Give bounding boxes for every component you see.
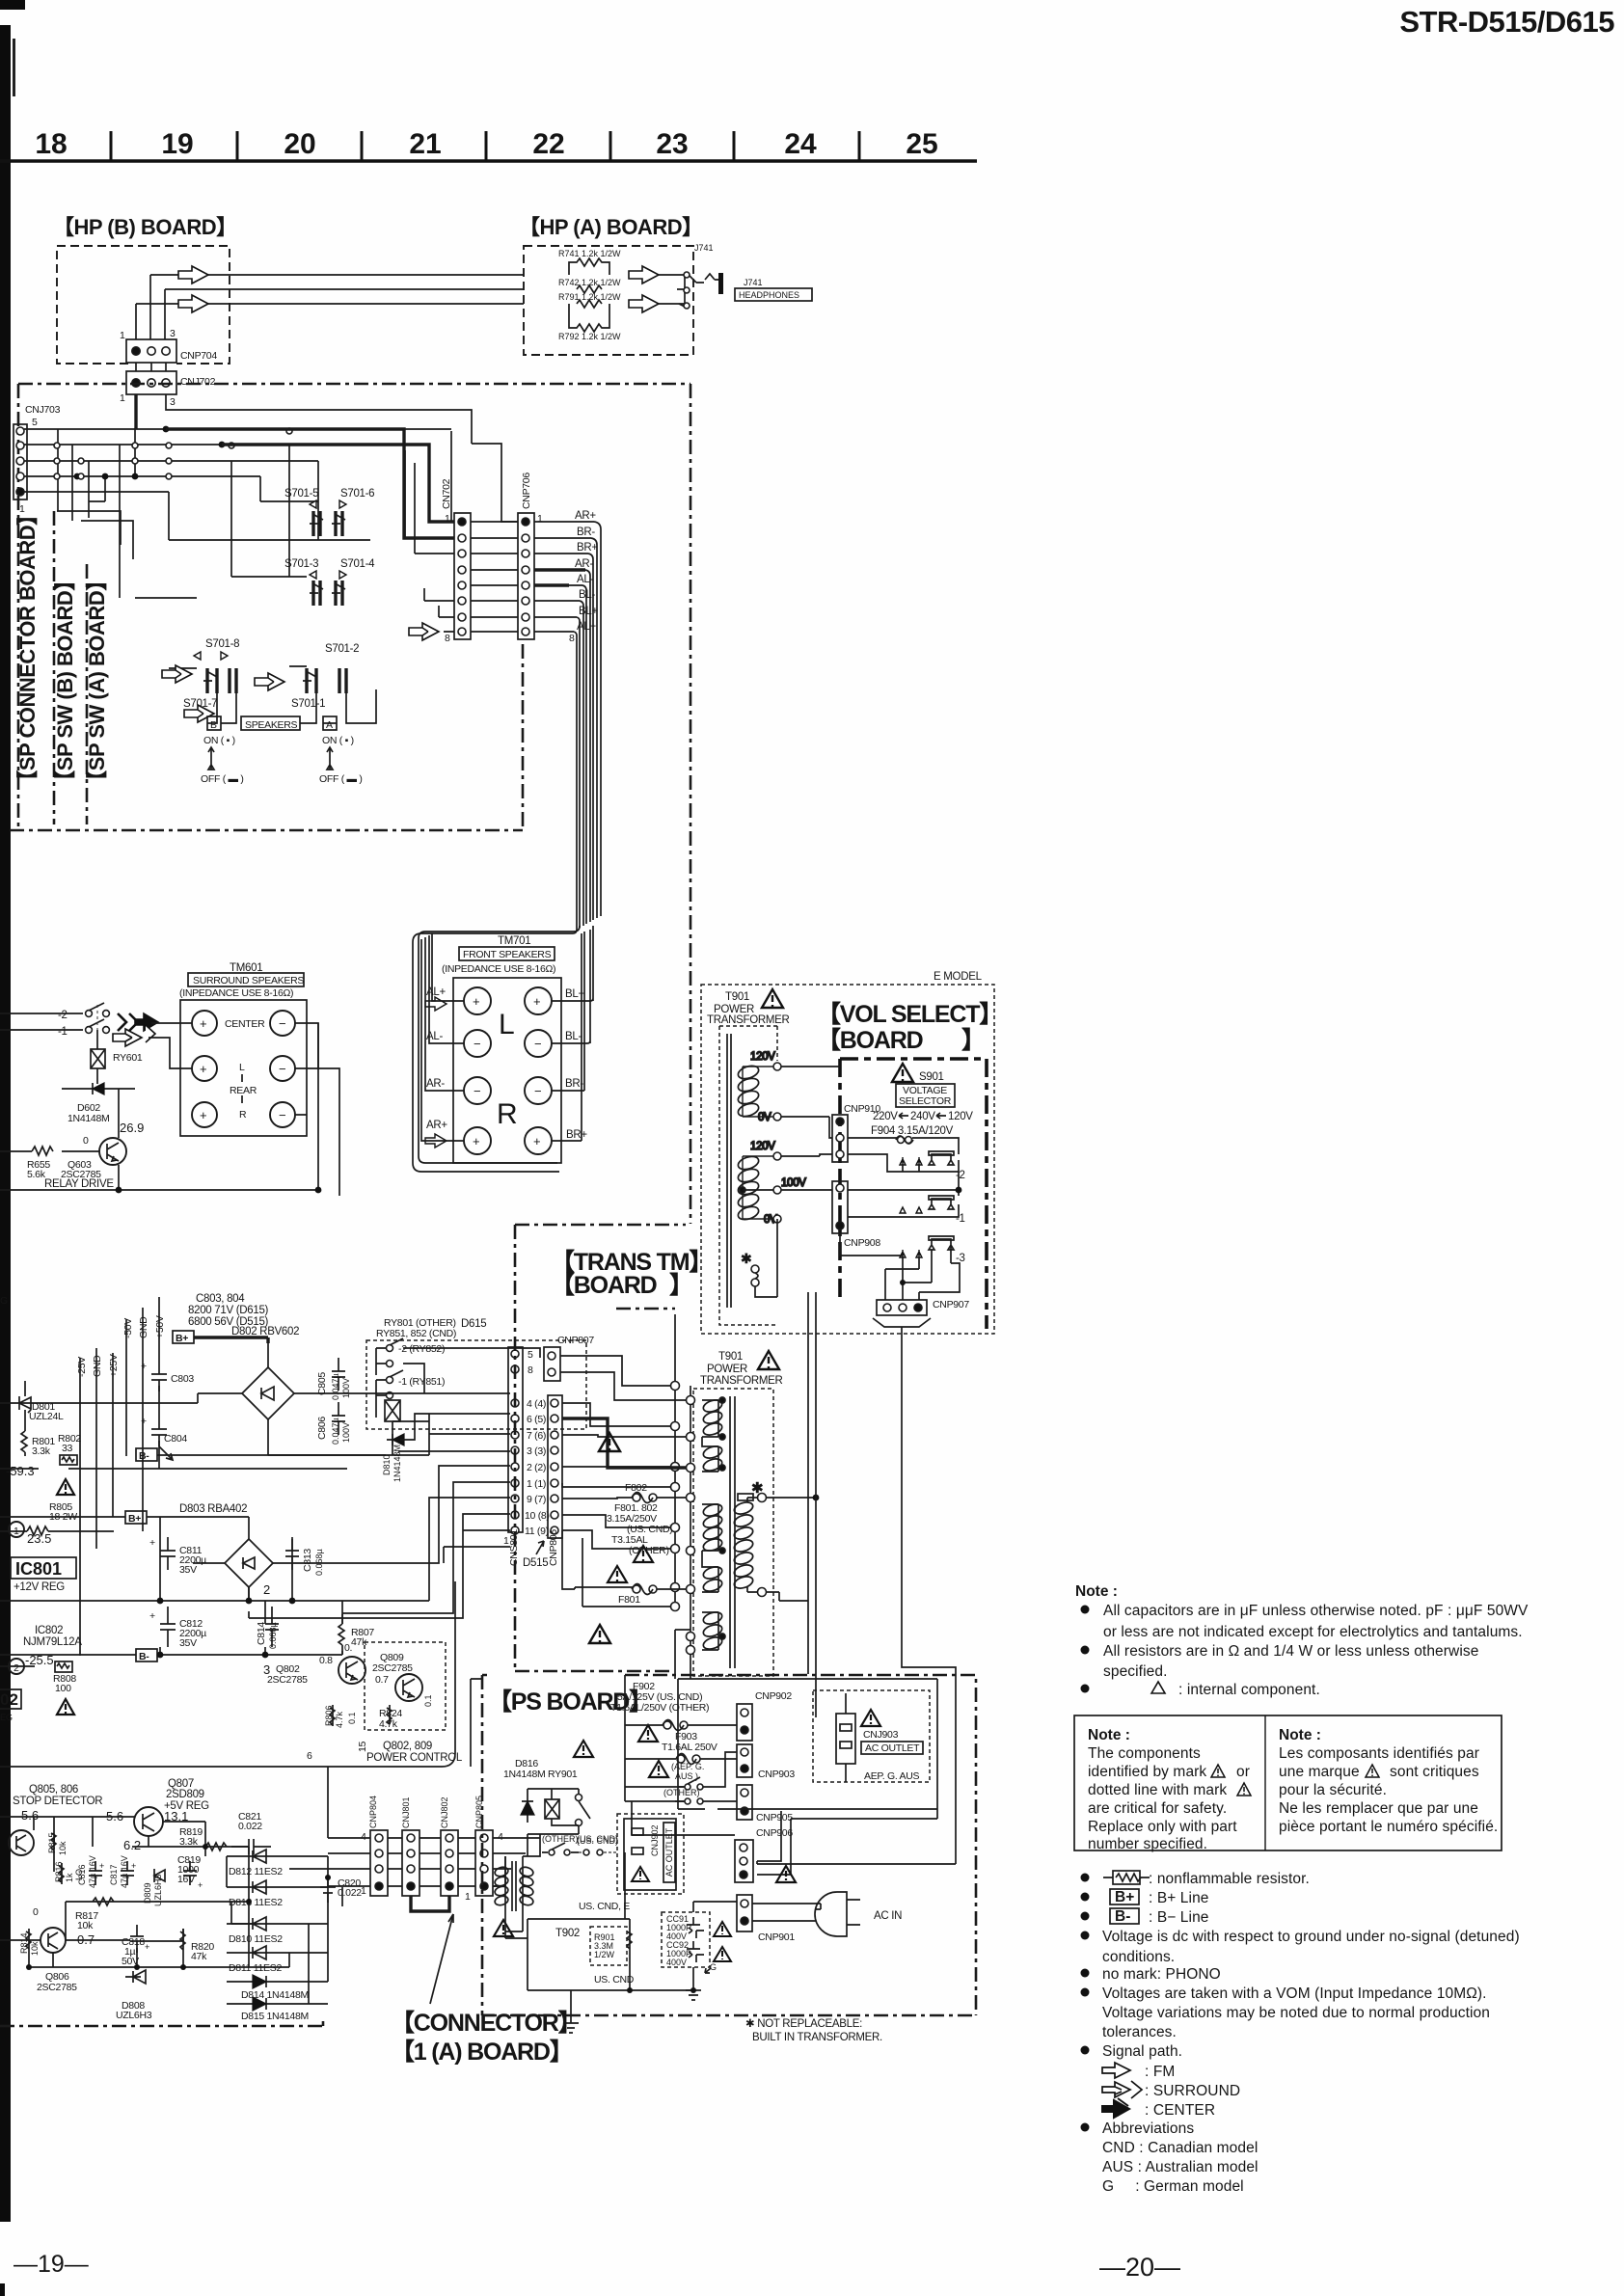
svg-text:S701-6: S701-6 (340, 488, 374, 500)
capacitor C819 1000 16V (177, 1854, 203, 1890)
svg-text:pour la sécurité.: pour la sécurité. (1279, 1782, 1387, 1798)
capacitor C811 2200u 35V (149, 1537, 206, 1576)
surround arrow to pin8 (409, 623, 439, 640)
svg-text:35V: 35V (179, 1637, 197, 1649)
relay RY901 switch (576, 1789, 591, 1834)
terminal TM601 L - (270, 1056, 295, 1081)
Q809 dotted box (365, 1642, 446, 1730)
wire S701-1 bottom rail (207, 689, 376, 723)
svg-text:-1 (RY851): -1 (RY851) (398, 1376, 445, 1388)
resistor R806 4.7k (324, 1705, 357, 1728)
svg-text:(AEP. G.: (AEP. G. (671, 1762, 704, 1771)
surround arrow mid (255, 673, 284, 690)
svg-text:+: + (473, 994, 480, 1009)
T901 secondary coil 2 (737, 1141, 807, 1226)
connector CNP704 (120, 328, 217, 363)
svg-text:24: 24 (784, 128, 817, 160)
zener D808 UZL6H3 (116, 1970, 152, 2021)
svg-text:47µ 16V: 47µ 16V (120, 1855, 129, 1888)
svg-text:0.: 0. (344, 1642, 352, 1654)
svg-text:S701-4: S701-4 (340, 558, 375, 570)
svg-text:CNP806: CNP806 (548, 1529, 559, 1566)
diode D810 1N4148M (382, 1434, 404, 1482)
svg-text:CENTER: CENTER (225, 1018, 265, 1030)
svg-text:0.068µ: 0.068µ (314, 1549, 324, 1576)
svg-text:Voltages are taken with a VOM: Voltages are taken with a VOM (Input Imp… (1102, 1985, 1487, 2002)
svg-text:R: R (239, 1109, 247, 1121)
warning triangles CC (714, 1922, 731, 1936)
svg-text:CNP706: CNP706 (521, 473, 532, 509)
svg-text:CNJ902: CNJ902 (650, 1824, 660, 1856)
svg-text:+: + (200, 1108, 207, 1122)
svg-text:RY851, 852 (CND): RY851, 852 (CND) (376, 1328, 456, 1339)
AC OUTLET rotated box (663, 1823, 675, 1882)
svg-text:✱ NOT REPLACEABLE:: ✱ NOT REPLACEABLE: (745, 2018, 862, 2030)
svg-text:CNP906: CNP906 (756, 1827, 793, 1839)
svg-text:2: 2 (14, 1662, 19, 1674)
wire HP(B) to HP(A) row2 (165, 288, 524, 290)
svg-text:CNJ703: CNJ703 (25, 404, 61, 416)
svg-text:+: + (131, 1861, 136, 1871)
svg-text:(US. CND): (US. CND) (577, 1836, 618, 1846)
svg-text:CNJ903: CNJ903 (863, 1729, 899, 1741)
T901 primary coil (733, 1494, 767, 1597)
svg-text:−: − (474, 1084, 481, 1098)
svg-text:+: + (533, 1134, 541, 1148)
TM601 output wires right side (295, 1023, 339, 1196)
svg-text:5: 5 (32, 417, 38, 428)
CC91 CC92 dotted box (662, 1912, 710, 1967)
svg-text:【SP SW (A) BOARD】: 【SP SW (A) BOARD】 (85, 570, 109, 791)
S901 warning triangle (892, 1064, 913, 1082)
svg-text:1: 1 (120, 330, 125, 341)
svg-text:CNJ801: CNJ801 (401, 1796, 411, 1828)
svg-text:OFF ( ▬ ): OFF ( ▬ ) (319, 773, 363, 785)
svg-text:+5V REG: +5V REG (164, 1800, 209, 1812)
bridge rectifier D802 (198, 1343, 338, 1455)
svg-text:specified.: specified. (1103, 1663, 1167, 1680)
svg-text:18: 18 (35, 128, 67, 160)
svg-text:0.7: 0.7 (375, 1674, 389, 1686)
wire verticals in mesh (58, 428, 318, 598)
svg-text:【HP (B) BOARD】: 【HP (B) BOARD】 (53, 215, 237, 239)
svg-text:1: 1 (14, 1526, 19, 1537)
svg-text:E MODEL: E MODEL (934, 971, 983, 983)
svg-text:0.1: 0.1 (423, 1694, 433, 1707)
wires into CN702 from mesh (405, 431, 454, 632)
svg-text:B: B (210, 719, 217, 731)
svg-text:D803 RBA402: D803 RBA402 (179, 1503, 247, 1515)
note bullet internal component (1081, 1685, 1090, 1693)
svg-text:1 (1): 1 (1) (527, 1478, 546, 1490)
terminal TM601 center - (270, 1011, 295, 1036)
svg-text:BL+: BL+ (579, 606, 598, 617)
connector CN702 (441, 478, 471, 644)
svg-text:-1: -1 (58, 1026, 68, 1038)
svg-text:2SA1175: 2SA1175 (0, 1837, 2, 1872)
svg-text:(OTHER): (OTHER) (542, 1834, 579, 1844)
svg-text:4: 4 (361, 1831, 366, 1843)
warning triangle trans mid (599, 1433, 620, 1451)
bottom board dash-dot (0, 2021, 323, 2026)
svg-text:5.6: 5.6 (21, 1808, 39, 1823)
transistor Q603 (62, 1089, 126, 1190)
R901 dotted box (590, 1927, 627, 1965)
svg-text:2SC2785: 2SC2785 (372, 1662, 413, 1674)
warning triangle T901 (762, 989, 783, 1008)
svg-text:AC OUTLET: AC OUTLET (865, 1742, 920, 1754)
relay RY601 (91, 1030, 143, 1084)
transistor Q806 (33, 1906, 95, 1993)
svg-text:0: 0 (33, 1906, 39, 1918)
connector CNP907 (877, 1299, 969, 1315)
svg-text:+: + (473, 1134, 480, 1148)
svg-text:02: 02 (0, 1690, 18, 1709)
svg-text:dotted line with mark: dotted line with mark (1088, 1782, 1227, 1798)
jumper -1 (929, 1196, 965, 1225)
svg-text:B+: B+ (1115, 1889, 1134, 1905)
capacitor C806 0.047 100V (316, 1402, 351, 1445)
zener D809 UZL6H3 (143, 1869, 165, 1906)
resistor R807 47k (338, 1614, 374, 1655)
svg-text:AR-: AR- (426, 1078, 445, 1090)
svg-text:S701-8: S701-8 (205, 638, 239, 650)
svg-text:All resistors are in Ω and 1/4: All resistors are in Ω and 1/4 W or less… (1103, 1643, 1478, 1660)
bullet B+ line (1081, 1893, 1090, 1902)
svg-text:−: − (534, 1037, 542, 1051)
svg-text:Ne les remplacer que par une: Ne les remplacer que par une (1279, 1800, 1478, 1817)
svg-text:: CENTER: : CENTER (1145, 2102, 1215, 2119)
svg-text:0.068µ: 0.068µ (268, 1622, 278, 1649)
svg-text:GND: GND (92, 1355, 103, 1377)
svg-text:US. CND: US. CND (594, 1974, 635, 1985)
svg-text:1: 1 (445, 513, 450, 525)
svg-text:25: 25 (906, 128, 937, 160)
mid GND rail (0, 1517, 429, 1601)
svg-text:: nonflammable resistor.: : nonflammable resistor. (1149, 1871, 1310, 1887)
capacitor C805 0.047 100V (316, 1358, 351, 1400)
AC OUTLET box 903 (861, 1742, 923, 1754)
svg-text:Note :: Note : (1075, 1583, 1118, 1600)
svg-text:0.1: 0.1 (347, 1712, 357, 1724)
wire CNP704-CNJ702 pins (136, 363, 166, 371)
svg-text:5: 5 (528, 1349, 533, 1361)
IC801 box label (11, 1557, 76, 1579)
svg-text:D813 11ES2: D813 11ES2 (229, 1897, 283, 1908)
svg-text:AR+: AR+ (575, 510, 596, 522)
svg-text:19: 19 (161, 128, 193, 160)
VOLTAGE SELECTOR box (896, 1084, 955, 1107)
svg-text:STR-D515/D615: STR-D515/D615 (1399, 5, 1614, 39)
svg-text:B-: B- (1115, 1908, 1130, 1925)
svg-text:3: 3 (170, 328, 176, 339)
svg-text:10 (8): 10 (8) (525, 1510, 550, 1522)
transistor Q805 (0, 1808, 39, 1872)
CNJ902 pins (632, 1828, 643, 1835)
terminal TM701 AR+ (464, 1127, 491, 1154)
connector CNP905 (737, 1785, 793, 1823)
trans to psu drop wires (675, 1668, 690, 1679)
svg-text:OFF ( ▬ ): OFF ( ▬ ) (201, 773, 244, 785)
CNJ903 dotted box (813, 1690, 930, 1782)
svg-text:+12V REG: +12V REG (14, 1581, 65, 1593)
T901 core dotted box (719, 1026, 777, 1325)
svg-text:J741: J741 (744, 278, 763, 287)
svg-text:【1 (A) BOARD】: 【1 (A) BOARD】 (391, 2039, 573, 2066)
svg-text:AEP. G. AUS: AEP. G. AUS (864, 1770, 919, 1782)
jumper -2 (929, 1151, 965, 1181)
fuse F903 (676, 1754, 700, 1765)
SPEAKERS box (241, 716, 300, 730)
TM601 terminal box (180, 1000, 307, 1136)
trans bus vertical 2 (690, 1386, 691, 1668)
svg-text:Voltage is dc with respect to: Voltage is dc with respect to ground und… (1102, 1929, 1520, 1945)
svg-text:240V: 240V (910, 1111, 935, 1122)
thick wire AL- row (534, 583, 569, 586)
svg-text:-59.3: -59.3 (6, 1464, 35, 1478)
svg-text:10k: 10k (58, 1841, 68, 1855)
svg-text:Abbreviations: Abbreviations (1102, 2120, 1194, 2137)
rail verticals (80, 1297, 159, 1656)
svg-text:4: 4 (498, 1831, 503, 1843)
svg-text:B-: B- (139, 1651, 149, 1662)
note bullet capacitors (1081, 1606, 1090, 1614)
warning triangle CNJ902 (632, 1867, 649, 1881)
star link vol t901 (741, 1219, 777, 1297)
wires -3 to CNP907 (840, 1233, 960, 1300)
diode D812 11ES2 (227, 1850, 328, 1877)
svg-text:S701-1: S701-1 (291, 698, 325, 710)
TM601 SURROUND SPEAKERS boxed label (188, 973, 304, 986)
svg-text:une marque: une marque (1279, 1764, 1360, 1780)
bottom emitter rail (0, 1189, 318, 1191)
wire from CNJ702 pin3 (166, 394, 518, 522)
svg-text:C816: C816 (77, 1864, 87, 1885)
HP (A) board outline (524, 246, 693, 355)
svg-text:B+: B+ (176, 1333, 188, 1344)
svg-text:【VOL SELECT】: 【VOL SELECT】 (817, 1001, 1002, 1028)
switch S701-2 (291, 643, 359, 710)
warning triangle f801 (608, 1566, 627, 1582)
capacitor C812 2200u 35V (149, 1607, 206, 1649)
svg-text:R815: R815 (47, 1832, 57, 1853)
svg-text:0.8: 0.8 (319, 1655, 333, 1666)
svg-text:16V: 16V (177, 1874, 195, 1885)
TM701 terminal box (453, 978, 561, 1163)
svg-text:0.047µ: 0.047µ (331, 1373, 340, 1400)
bullet signal path (1081, 2046, 1090, 2055)
connector CNP906 (735, 1827, 793, 1882)
svg-text:+: + (149, 1610, 155, 1622)
svg-text:【BOARD: 【BOARD (817, 1027, 923, 1054)
svg-text:C805: C805 (316, 1372, 328, 1395)
svg-text:1k: 1k (65, 1873, 74, 1882)
svg-text:R741 1.2k 1/2W: R741 1.2k 1/2W (558, 249, 621, 258)
resistor R817 10k (66, 1898, 251, 1931)
svg-text:CND : Canadian model: CND : Canadian model (1102, 2140, 1258, 2156)
B+ rail 2 (0, 1516, 249, 1518)
T902 transformer (494, 1856, 534, 1919)
svg-text:6.2: 6.2 (123, 1838, 141, 1852)
svg-text:+: + (145, 1942, 149, 1952)
connector CNP806 (548, 1395, 562, 1566)
diode D602 1N4148M (62, 1083, 135, 1124)
svg-text:1: 1 (120, 392, 125, 404)
capacitor CC92 1000P 400V (666, 1940, 704, 1967)
resistor R808 100 (0, 1661, 76, 1694)
warning triangle F903 (638, 1725, 658, 1742)
svg-text:J741: J741 (694, 243, 714, 253)
svg-text:AC IN: AC IN (874, 1910, 902, 1922)
svg-text:CNP903: CNP903 (758, 1769, 795, 1780)
wire arrows to TM601 (149, 1023, 192, 1068)
svg-text:2 (2): 2 (2) (527, 1462, 546, 1473)
T901 secondary C coils (702, 1610, 725, 1652)
thick wire CNP806 row (562, 1418, 687, 1468)
svg-text:CNP807: CNP807 (557, 1335, 594, 1346)
svg-text:T902: T902 (555, 1928, 580, 1939)
svg-text:NJM79L12A: NJM79L12A (23, 1636, 82, 1648)
svg-text:EG: EG (0, 1713, 13, 1722)
svg-text:: internal component.: : internal component. (1178, 1682, 1320, 1698)
capacitor C813 0.068u (285, 1537, 324, 1576)
safety note box (1074, 1715, 1502, 1850)
E model dotted enclosure (701, 985, 994, 1334)
bullet B- line (1081, 1912, 1090, 1921)
svg-text:(INPEDANCE USE 8-16Ω): (INPEDANCE USE 8-16Ω) (179, 987, 293, 999)
T901 core lines lower (730, 1396, 735, 1668)
SP board divider dash-dot left (54, 511, 87, 824)
T901 secondary B coils (702, 1502, 725, 1594)
svg-text:BR+: BR+ (566, 1129, 587, 1141)
speakers B box (207, 716, 221, 730)
svg-text:or: or (1236, 1764, 1250, 1780)
capacitor CC91 1000P 400V (666, 1914, 704, 1941)
svg-text:1: 1 (465, 1891, 471, 1903)
svg-text:1N4148M: 1N4148M (68, 1113, 109, 1124)
connector CNJ802 (440, 1796, 458, 1896)
transistor Q807 (106, 1778, 209, 1836)
svg-text:+: + (141, 1416, 147, 1427)
ground symbol ps (686, 1962, 717, 2000)
terminal TM701 AL+ (464, 987, 491, 1014)
svg-text:F801: F801 (618, 1594, 640, 1606)
wire CNP907 down (757, 1327, 956, 1864)
wire mesh CNJ703 to CN702 (24, 429, 451, 492)
switch S701-7 bars (183, 668, 236, 710)
svg-text:(INPEDANCE USE 8-16Ω): (INPEDANCE USE 8-16Ω) (442, 963, 555, 975)
svg-text:10k: 10k (77, 1920, 94, 1931)
warning triangle T901 lower (758, 1351, 779, 1369)
wire routes into switches (57, 511, 370, 668)
svg-text:−: − (534, 1084, 542, 1098)
svg-text:no mark: PHONO: no mark: PHONO (1102, 1966, 1221, 1983)
resistor R655 5.6k (0, 1147, 53, 1180)
svg-text:ON ( ▪ ): ON ( ▪ ) (203, 735, 235, 746)
svg-text:BR-: BR- (577, 527, 595, 538)
FM arrow HP(B) row1 (178, 266, 208, 284)
funnel below CNP907 (873, 1318, 931, 1327)
wire -1 loop (848, 1172, 959, 1217)
warning triangle T902 (494, 1920, 513, 1936)
svg-text:C817: C817 (109, 1864, 119, 1885)
svg-text:: B+ Line: : B+ Line (1149, 1890, 1209, 1906)
CNJ902 inner box (624, 1819, 676, 1890)
grid numbers 18-25 (35, 128, 937, 160)
svg-text:15: 15 (357, 1741, 368, 1752)
bullet nonflammable resistor (1081, 1874, 1090, 1882)
svg-text:47k: 47k (191, 1951, 207, 1962)
resistor R814 10k (19, 1929, 40, 1956)
svg-text:Note :: Note : (1279, 1727, 1321, 1743)
ps wires fuses (528, 1675, 937, 1875)
ps ground rail (528, 1852, 737, 1990)
ps wire box (678, 1679, 937, 1819)
switch S701-4 (332, 558, 375, 606)
diode D816 (522, 1789, 533, 1823)
terminal TM601 center + (192, 1011, 217, 1036)
svg-text:4 (4): 4 (4) (527, 1398, 546, 1410)
switch S701-3 (284, 558, 323, 606)
transistor Q802 (267, 1642, 365, 1686)
wires q807 (0, 1817, 249, 1872)
svg-text:+50V: +50V (154, 1315, 166, 1338)
svg-text:S701-2: S701-2 (325, 643, 359, 655)
svg-text:2SC2785: 2SC2785 (37, 1982, 77, 1993)
svg-text:D809: D809 (143, 1882, 152, 1904)
svg-text:: SURROUND: : SURROUND (1145, 2083, 1240, 2099)
psu wire lower pins (249, 1514, 510, 1618)
svg-text:AR+: AR+ (426, 1120, 447, 1131)
svg-text:AC OUTLET: AC OUTLET (664, 1827, 674, 1877)
TM701 left feed wires (421, 933, 464, 1141)
svg-text:2: 2 (263, 1582, 270, 1597)
svg-text:20: 20 (284, 128, 315, 160)
svg-text:FRONT SPEAKERS: FRONT SPEAKERS (463, 949, 552, 960)
svg-text:8: 8 (445, 633, 450, 644)
svg-text:-2: -2 (58, 1010, 68, 1021)
svg-text:22: 22 (532, 128, 564, 160)
svg-text:23.5: 23.5 (27, 1531, 51, 1546)
svg-text:3.3k: 3.3k (179, 1836, 199, 1848)
connector CNJ703 (14, 404, 61, 515)
svg-text:CNP704: CNP704 (180, 350, 217, 362)
psu long wires to connectors (0, 1348, 540, 1613)
svg-text:1: 1 (19, 503, 25, 515)
B- box 2 (136, 1649, 157, 1662)
svg-text:35V: 35V (179, 1564, 197, 1576)
svg-text:−: − (279, 1016, 286, 1031)
svg-text:ON ( ▪ ): ON ( ▪ ) (322, 735, 354, 746)
warning triangle psu1 (57, 1479, 74, 1495)
SP board divider dash-dot right of CN702 (522, 644, 525, 830)
svg-text:G: G (710, 1962, 717, 1972)
svg-text:conditions.: conditions. (1102, 1949, 1175, 1965)
capacitor C814 0.068u (256, 1607, 279, 1649)
thick wire AR- (534, 568, 585, 571)
ps t902 wires (493, 1834, 540, 1938)
svg-text:D810: D810 (382, 1454, 392, 1475)
svg-text:C813: C813 (302, 1549, 313, 1572)
svg-text:D802 RBV602: D802 RBV602 (231, 1326, 299, 1337)
terminal TM701 BL- (525, 1030, 552, 1057)
relay coil RY801 (385, 1400, 400, 1437)
svg-text:+: + (149, 1537, 155, 1549)
wires C803 C804 to rails (143, 1339, 159, 1469)
svg-text:TM701: TM701 (498, 935, 530, 947)
svg-text:D811 11ES2: D811 11ES2 (229, 1962, 282, 1974)
svg-text:AR-: AR- (575, 558, 593, 570)
